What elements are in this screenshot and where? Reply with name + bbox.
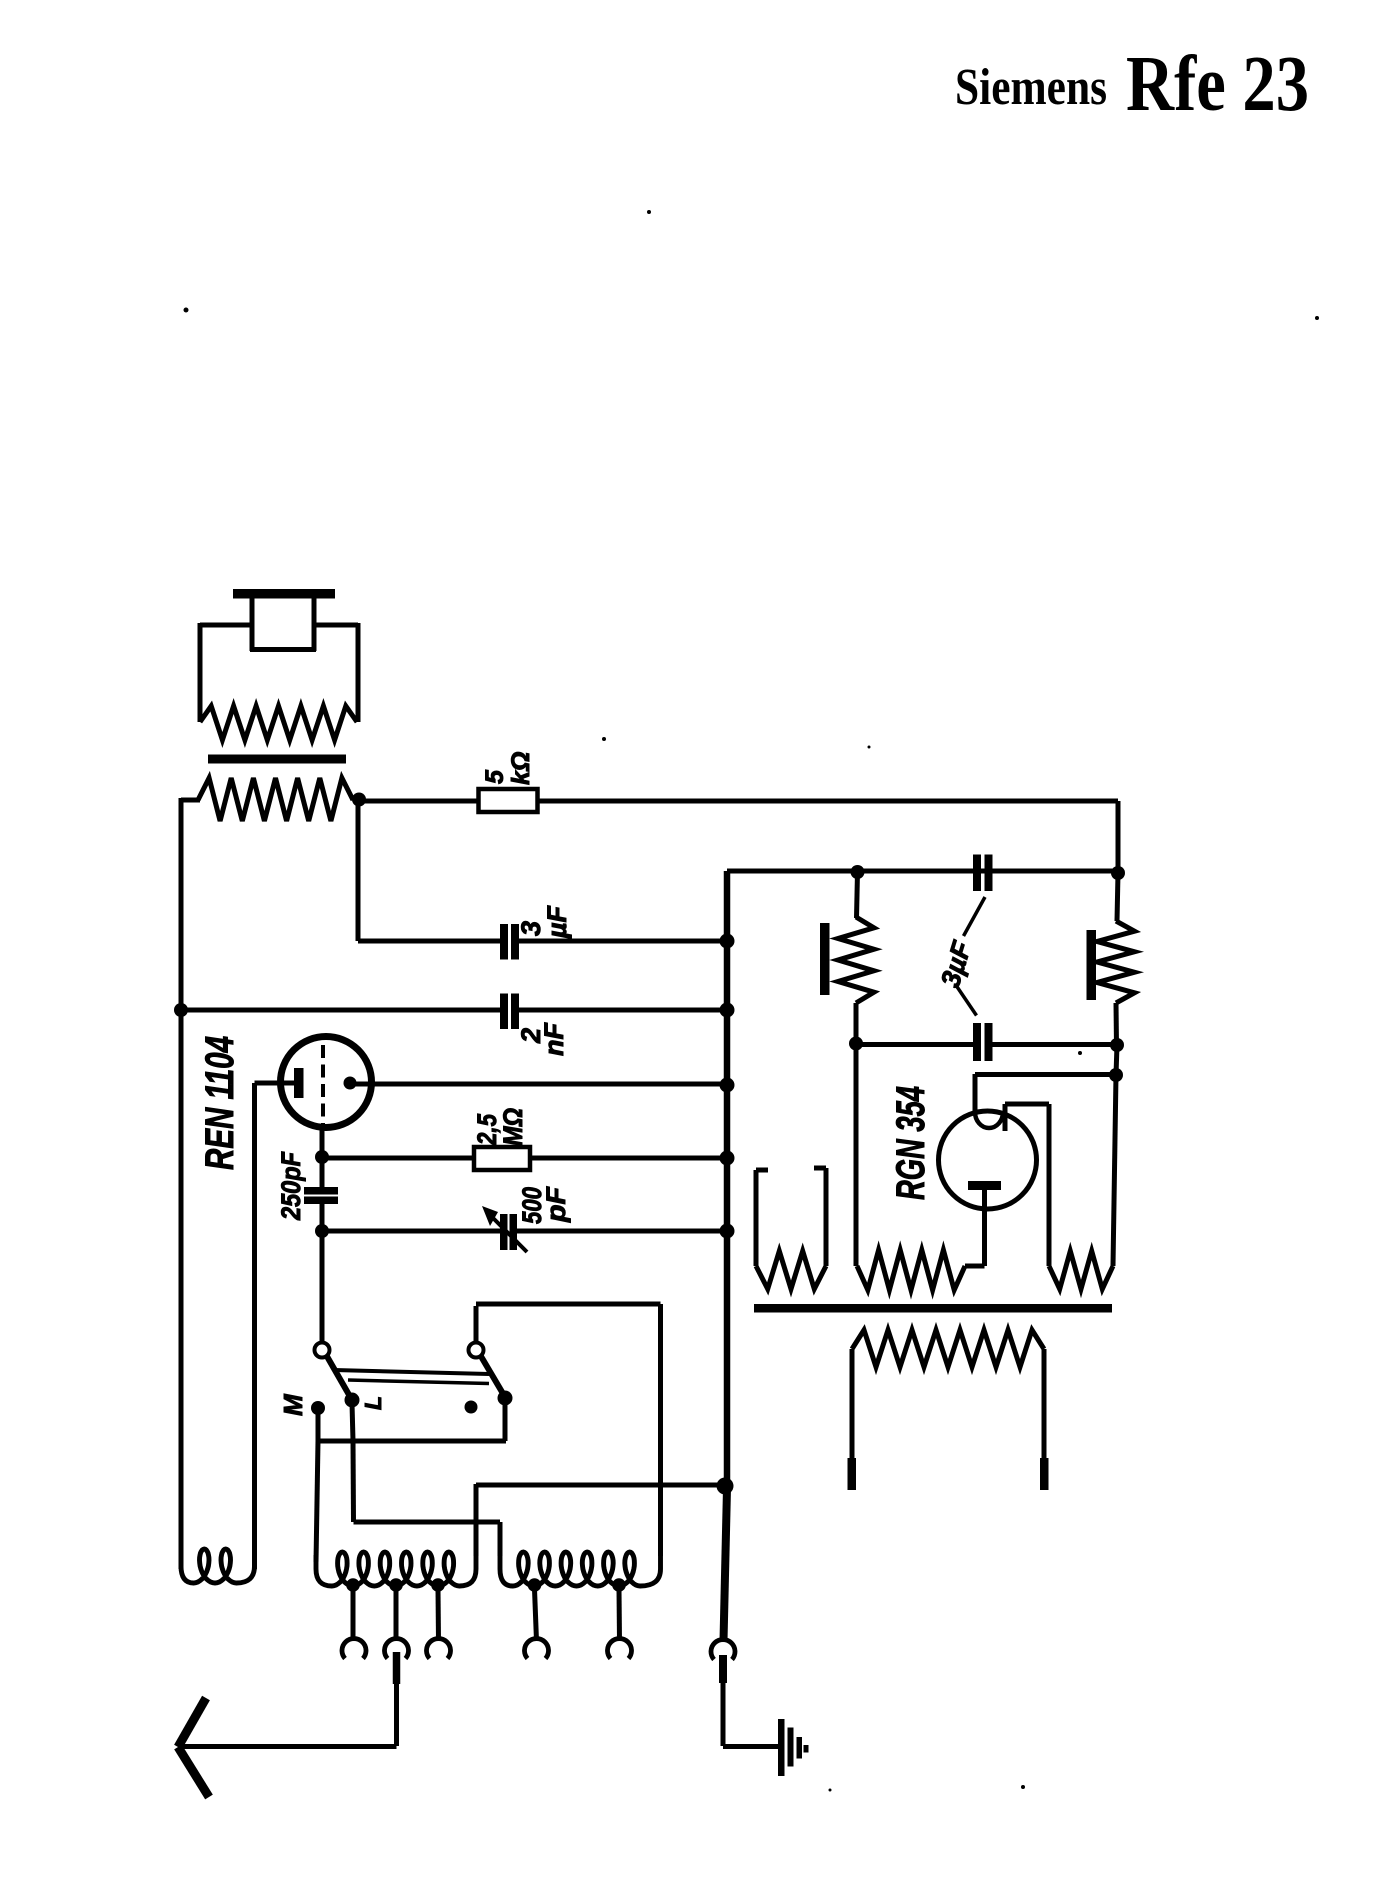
- svg-text:250pF: 250pF: [276, 1151, 306, 1221]
- svg-text:µF: µF: [542, 904, 572, 939]
- svg-text:Siemens: Siemens: [955, 59, 1107, 116]
- svg-text:REN 1104: REN 1104: [198, 1036, 242, 1170]
- svg-text:M: M: [278, 1393, 308, 1416]
- svg-text:L: L: [360, 1396, 386, 1410]
- svg-text:MΩ: MΩ: [498, 1108, 528, 1146]
- svg-text:5: 5: [481, 769, 509, 784]
- svg-text:Rfe 23: Rfe 23: [1126, 41, 1309, 128]
- svg-text:pF: pF: [541, 1185, 571, 1223]
- svg-text:kΩ: kΩ: [507, 752, 535, 785]
- svg-text:nF: nF: [539, 1022, 569, 1056]
- svg-text:RGN 354: RGN 354: [889, 1086, 933, 1200]
